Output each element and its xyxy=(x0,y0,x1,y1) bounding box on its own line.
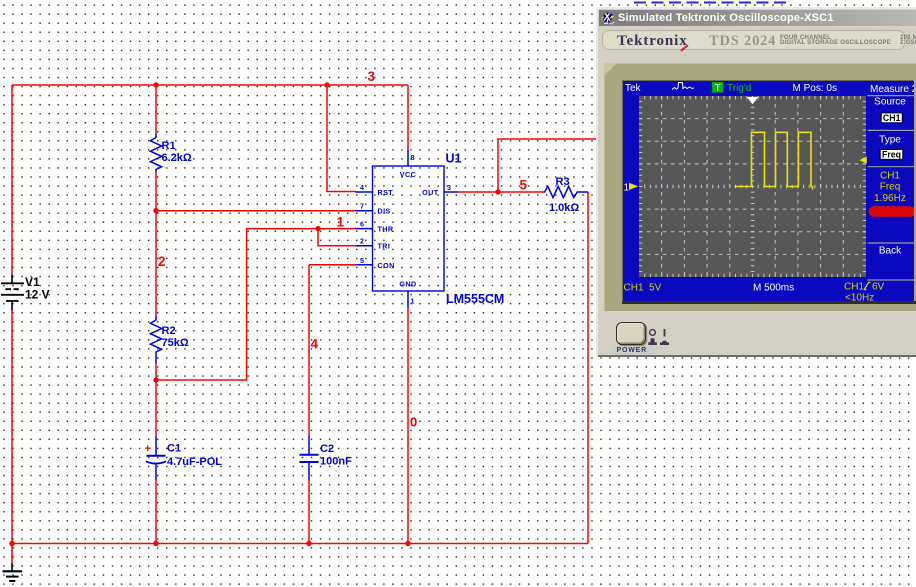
svg-text:CH1: CH1 xyxy=(844,282,864,293)
svg-text:+: + xyxy=(145,443,151,455)
svg-text:Freq: Freq xyxy=(882,149,901,159)
svg-text:4: 4 xyxy=(360,183,364,192)
svg-text:3: 3 xyxy=(447,183,451,192)
svg-text:4.7uF-POL: 4.7uF-POL xyxy=(167,456,222,468)
svg-text:C2: C2 xyxy=(320,443,334,455)
svg-text:Back: Back xyxy=(879,245,902,256)
svg-text:1: 1 xyxy=(411,297,415,306)
svg-text:1: 1 xyxy=(337,215,345,230)
svg-text:Tek: Tek xyxy=(625,83,642,94)
svg-text:5: 5 xyxy=(520,178,528,193)
svg-text:RST: RST xyxy=(378,188,394,197)
svg-text:R2: R2 xyxy=(162,325,176,337)
svg-text:4: 4 xyxy=(311,337,319,352)
svg-text:6.2kΩ: 6.2kΩ xyxy=(162,152,192,164)
svg-text:R1: R1 xyxy=(162,140,176,152)
svg-text:Source: Source xyxy=(874,97,906,108)
svg-text:6V: 6V xyxy=(872,282,885,293)
svg-text:VCC: VCC xyxy=(400,170,416,179)
svg-text:100nF: 100nF xyxy=(320,456,352,468)
svg-text:TRI: TRI xyxy=(378,242,391,251)
svg-text:CON: CON xyxy=(378,261,395,270)
svg-text:M Pos: 0s: M Pos: 0s xyxy=(793,83,837,94)
svg-text:1.96Hz: 1.96Hz xyxy=(874,193,906,204)
svg-text:5: 5 xyxy=(360,256,364,265)
svg-text:CH1 5V: CH1 5V xyxy=(624,283,662,294)
svg-text:OUT: OUT xyxy=(422,188,439,197)
svg-text:6: 6 xyxy=(360,220,364,229)
svg-text:CH1: CH1 xyxy=(883,113,901,123)
svg-text:T: T xyxy=(715,83,721,94)
svg-text:U1: U1 xyxy=(446,152,462,166)
svg-text:DIS: DIS xyxy=(378,207,391,216)
svg-text:Type: Type xyxy=(879,135,901,146)
svg-text:8: 8 xyxy=(411,153,415,162)
svg-text:2: 2 xyxy=(158,254,166,269)
svg-text:Trig'd: Trig'd xyxy=(727,83,751,94)
svg-text:M 500ms: M 500ms xyxy=(753,283,794,294)
svg-text:THR: THR xyxy=(378,225,394,234)
svg-text:C1: C1 xyxy=(167,443,181,455)
svg-text:1: 1 xyxy=(624,183,630,194)
svg-text:2: 2 xyxy=(360,237,364,246)
svg-text:7: 7 xyxy=(360,202,364,211)
svg-text:GND: GND xyxy=(399,280,416,289)
svg-text:0: 0 xyxy=(410,415,417,430)
svg-text:75kΩ: 75kΩ xyxy=(162,337,189,349)
svg-text:Freq: Freq xyxy=(880,182,901,193)
svg-text:LM555CM: LM555CM xyxy=(446,292,504,306)
svg-text:3: 3 xyxy=(368,69,376,84)
svg-text:1.0kΩ: 1.0kΩ xyxy=(549,202,579,214)
svg-text:R3: R3 xyxy=(556,176,570,188)
svg-text:Measure 2: Measure 2 xyxy=(870,84,914,95)
svg-text:12 V: 12 V xyxy=(25,288,50,302)
svg-text:CH1: CH1 xyxy=(880,170,900,181)
